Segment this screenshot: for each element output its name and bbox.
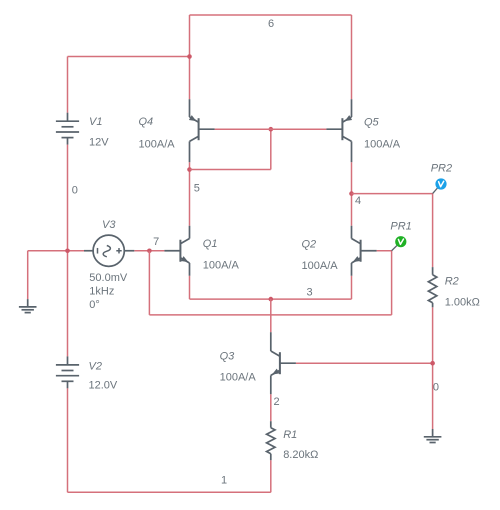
svg-text:PR1: PR1: [390, 220, 411, 232]
svg-text:6: 6: [268, 18, 274, 30]
svg-text:R2: R2: [445, 276, 459, 288]
svg-text:V3: V3: [102, 219, 116, 231]
svg-text:Q3: Q3: [220, 351, 236, 363]
svg-text:12.0V: 12.0V: [89, 380, 118, 392]
svg-text:100A/A: 100A/A: [364, 139, 401, 151]
svg-text:12V: 12V: [89, 137, 109, 149]
svg-text:0°: 0°: [89, 299, 100, 311]
svg-text:Q2: Q2: [302, 239, 317, 251]
svg-text:PR2: PR2: [431, 163, 452, 175]
svg-text:Q4: Q4: [139, 116, 154, 128]
svg-text:2: 2: [274, 396, 280, 408]
svg-text:0: 0: [72, 185, 78, 197]
svg-text:5: 5: [194, 182, 200, 194]
svg-text:Q5: Q5: [364, 117, 380, 129]
svg-text:V2: V2: [89, 360, 102, 372]
svg-text:Q1: Q1: [203, 238, 218, 250]
svg-text:R1: R1: [283, 429, 297, 441]
svg-text:4: 4: [355, 195, 361, 207]
svg-text:50.0mV: 50.0mV: [89, 272, 128, 284]
svg-text:3: 3: [307, 287, 313, 299]
svg-text:1kHz: 1kHz: [89, 286, 114, 298]
svg-text:0: 0: [433, 382, 439, 394]
svg-text:V1: V1: [89, 116, 102, 128]
svg-text:1.00kΩ: 1.00kΩ: [445, 296, 480, 308]
svg-text:100A/A: 100A/A: [220, 372, 257, 384]
svg-text:100A/A: 100A/A: [203, 259, 240, 271]
svg-text:7: 7: [153, 236, 159, 248]
svg-text:100A/A: 100A/A: [139, 139, 176, 151]
svg-text:1: 1: [221, 475, 227, 487]
svg-text:8.20kΩ: 8.20kΩ: [283, 449, 318, 461]
svg-text:100A/A: 100A/A: [302, 260, 339, 272]
